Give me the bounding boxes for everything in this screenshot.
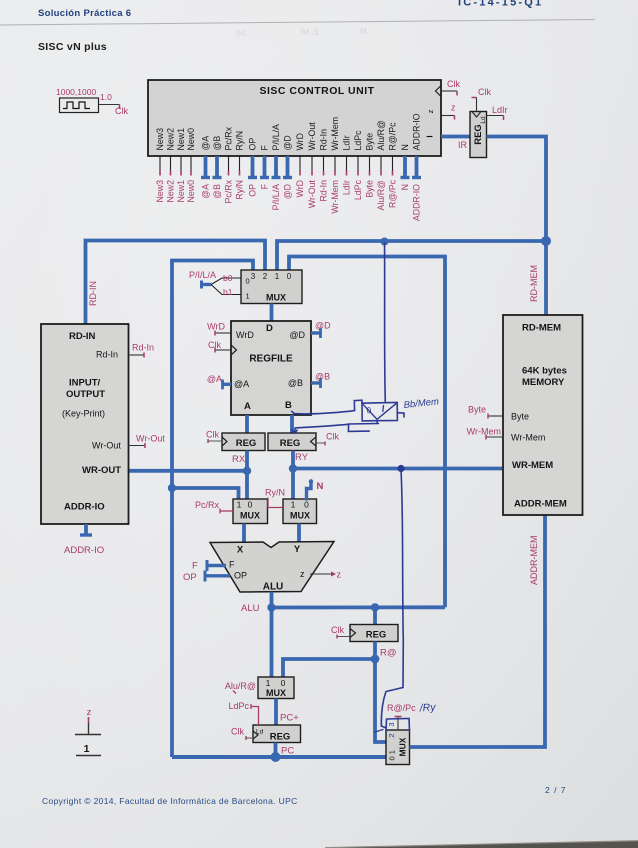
svg-text:New2: New2 <box>166 128 176 151</box>
pen wire Bb/Mem mux output back to RY <box>348 421 378 432</box>
wire PC bus left vertical loop <box>172 261 253 758</box>
IR clock input Clk <box>472 87 492 112</box>
svg-text:New1: New1 <box>176 180 186 203</box>
control unit pin OP <box>248 138 258 197</box>
wire RD-MEM top bus from right vertical to MUX input 1 <box>277 241 546 270</box>
pen wire from RD-MEM bus down to Bb/Mem mux input 1 <box>384 243 387 403</box>
svg-text:F: F <box>260 183 270 189</box>
svg-text:N: N <box>400 144 410 150</box>
I/O pin Rd-In <box>129 343 155 358</box>
svg-text:Alu/R@: Alu/R@ <box>225 681 256 691</box>
svg-text:Rd-In: Rd-In <box>132 343 154 353</box>
memory U4 64K bytes MEMORY <box>503 315 583 515</box>
junction RY / WR-MEM <box>289 464 297 472</box>
wire RD-MEM bus vertical above memory <box>544 241 548 315</box>
svg-text:b1: b1 <box>223 287 233 297</box>
svg-text:Wr-Out: Wr-Out <box>136 434 165 444</box>
svg-text:Pc/Rx: Pc/Rx <box>195 500 220 510</box>
wire REGFILE B to REG RY <box>290 415 294 433</box>
control unit pin Ry/N <box>235 131 245 200</box>
memory pin Byte <box>468 405 503 419</box>
svg-text:1: 1 <box>291 500 296 510</box>
svg-text:0: 0 <box>246 277 250 286</box>
svg-text:ADDR-IO: ADDR-IO <box>64 502 105 513</box>
svg-text:WrD: WrD <box>295 180 305 197</box>
svg-text:REG: REG <box>270 732 291 743</box>
svg-text:PC+: PC+ <box>280 713 299 724</box>
svg-text:0: 0 <box>281 678 286 688</box>
constant 1 driver for z <box>75 707 101 756</box>
svg-text:ADDR-IO: ADDR-IO <box>412 113 422 150</box>
svg-text:Byte: Byte <box>511 412 529 422</box>
svg-text:OP: OP <box>183 572 197 583</box>
svg-text:z: z <box>451 103 456 113</box>
svg-text:Wr-Out: Wr-Out <box>307 179 317 208</box>
pen junction on WR-MEM bus <box>397 465 404 472</box>
svg-text:ALU: ALU <box>241 603 260 614</box>
junction R@ output <box>371 655 380 664</box>
svg-text:Clk: Clk <box>447 79 460 89</box>
control unit pin @A <box>201 136 211 199</box>
ALU output z flag <box>310 570 342 580</box>
svg-text:R@/Pc: R@/Pc <box>388 179 398 208</box>
svg-text:Clk: Clk <box>115 106 128 116</box>
REGFILE pin WrD <box>207 322 231 336</box>
svg-text:ADDR-MEM: ADDR-MEM <box>514 499 567 510</box>
wire PC bus <box>172 755 386 759</box>
mux M3 (Ry/N MUX) <box>283 499 317 524</box>
control unit pin Byte <box>365 133 375 198</box>
svg-text:MUX: MUX <box>290 511 310 521</box>
wire WR-MEM bus from RY to memory <box>293 467 503 471</box>
svg-text:2: 2 <box>263 272 268 281</box>
control unit pin Wr-Mem <box>330 117 340 214</box>
svg-text:IM..S: IM..S <box>300 28 319 37</box>
wire MUX output to REGFILE D <box>270 304 274 322</box>
header rule <box>0 20 595 26</box>
clock generator <box>56 87 128 116</box>
svg-text:Wr-Out: Wr-Out <box>307 122 317 151</box>
control unit pin Pc/Rx <box>224 126 234 203</box>
svg-text:1000,1000: 1000,1000 <box>56 87 96 97</box>
svg-text:MEMORY: MEMORY <box>522 377 565 388</box>
svg-text:WrD: WrD <box>236 330 254 340</box>
svg-text:OUTPUT: OUTPUT <box>66 389 105 400</box>
pen junction on RD-MEM bus <box>381 238 389 246</box>
control unit pin R@/Pc <box>388 122 398 208</box>
svg-text:Clk: Clk <box>331 625 344 635</box>
svg-text:Copyright © 2014, Facultad de: Copyright © 2014, Facultad de Informátic… <box>42 796 298 806</box>
svg-text:X: X <box>237 545 244 556</box>
wire MUX2 out to ALU Y <box>297 524 301 544</box>
svg-text:PC: PC <box>281 746 294 757</box>
mux M1 (P/I/L/A 4-input MUX) <box>241 270 302 321</box>
wire PC output <box>274 743 278 758</box>
svg-text:Clk: Clk <box>206 430 219 440</box>
svg-text:INPUT/: INPUT/ <box>69 378 101 389</box>
svg-text:Ry/N: Ry/N <box>235 131 245 151</box>
RY clock Clk <box>316 432 339 446</box>
svg-text:0: 0 <box>287 272 292 281</box>
pen squiggle near mux input <box>375 730 383 733</box>
svg-text:z: z <box>337 570 342 580</box>
svg-text:LdIr: LdIr <box>342 180 352 195</box>
wire RD-IN bus from I/O up and right to MUX input 2 <box>86 241 266 325</box>
REGFILE pin @B stub <box>311 372 330 389</box>
svg-text:WrD: WrD <box>295 133 305 150</box>
register PC (REG) <box>253 725 301 743</box>
svg-text:REG: REG <box>280 438 301 449</box>
control unit pin Alu/R@ <box>376 120 386 210</box>
svg-text:Ry/N: Ry/N <box>235 180 245 200</box>
svg-text:64K bytes: 64K bytes <box>522 366 567 377</box>
svg-text:2: 2 <box>387 733 396 737</box>
control unit pin WrD <box>295 133 305 197</box>
svg-text:F: F <box>192 561 198 572</box>
I/O ADDR-IO stub <box>64 524 104 556</box>
faint bleed-through marks <box>236 27 369 38</box>
svg-text:N: N <box>317 481 324 492</box>
svg-text:WR-OUT: WR-OUT <box>82 465 121 476</box>
I/O pin Wr-Out <box>129 434 166 449</box>
register RX (REG) <box>222 433 265 451</box>
wire R@ branch to Alu/R@ mux in0 <box>283 659 375 677</box>
svg-text:IR: IR <box>458 140 468 150</box>
svg-text:RD-IN: RD-IN <box>88 281 98 306</box>
svg-text:1.0: 1.0 <box>100 92 112 102</box>
junction ALU output <box>267 603 275 611</box>
control unit pin New3 <box>155 128 165 203</box>
svg-text:LdIr: LdIr <box>342 135 352 150</box>
svg-text:@B: @B <box>212 184 222 199</box>
photo bottom edge shadow <box>325 841 638 848</box>
svg-text:New0: New0 <box>186 180 196 203</box>
svg-text:P/I/L/A: P/I/L/A <box>189 270 216 280</box>
svg-text:WrD: WrD <box>207 322 225 332</box>
svg-text:R@/Pc: R@/Pc <box>388 122 398 151</box>
svg-text:@B: @B <box>315 372 330 382</box>
I/O unit U5 INPUT/OUTPUT <box>41 324 129 524</box>
node N stub input <box>307 479 324 499</box>
control unit pin LdPc <box>353 130 363 200</box>
control unit clock input Clk <box>436 79 461 97</box>
pen hook into mux input 3 <box>381 726 386 728</box>
wire R@ output down to bottom mux <box>375 642 386 743</box>
wire RX output to MUX in0 <box>245 451 249 500</box>
svg-text:@A: @A <box>207 374 222 384</box>
ALU input stub F <box>192 560 226 572</box>
svg-text:@B: @B <box>288 378 303 388</box>
svg-text:0: 0 <box>248 500 253 510</box>
select Ry/N <box>265 488 285 508</box>
svg-text:LdPc: LdPc <box>353 130 363 151</box>
PC load input LdPc <box>228 701 258 725</box>
pen extension box on address mux <box>386 719 410 732</box>
wire PC branch to MUX1 in1 <box>172 488 239 499</box>
svg-text:Rd-In: Rd-In <box>96 350 118 360</box>
svg-text:Rd-In: Rd-In <box>319 129 329 151</box>
REGFILE pin Clk <box>208 340 231 353</box>
REGFILE pin @A stub <box>207 374 231 389</box>
control unit input z <box>426 103 456 120</box>
svg-text:REG: REG <box>236 438 257 449</box>
hand-drawn mux Bb/Mem <box>362 402 397 421</box>
register R@ (REG) <box>350 625 398 642</box>
select R@/Pc <box>387 703 416 730</box>
svg-text:LdPc: LdPc <box>353 179 363 200</box>
svg-text:New0: New0 <box>186 128 196 151</box>
wire RY output to MUX in1 <box>291 451 295 500</box>
svg-text:MUX: MUX <box>266 688 286 698</box>
wire WR-OUT bus from I/O to RX <box>129 469 248 473</box>
svg-text:z: z <box>87 707 92 718</box>
control unit pin LdIr <box>342 135 352 195</box>
svg-text:@D: @D <box>315 321 331 331</box>
junction PC branch <box>168 484 176 492</box>
wire RD-MEM bus from IR corner down right side <box>487 137 547 242</box>
svg-text:Wr-Out: Wr-Out <box>92 441 121 451</box>
svg-text:IM,: IM, <box>236 29 247 38</box>
svg-text:LdIr: LdIr <box>492 105 508 115</box>
svg-text:REGFILE: REGFILE <box>249 354 293 365</box>
ALU input stub OP <box>183 571 230 584</box>
PC clock Clk <box>231 727 253 741</box>
svg-text:@A: @A <box>201 184 211 199</box>
select Pc/Rx <box>195 500 233 514</box>
svg-text:REG: REG <box>473 124 484 145</box>
svg-text:RD-MEM: RD-MEM <box>529 265 539 302</box>
svg-text:MUX: MUX <box>398 737 408 756</box>
svg-text:@B: @B <box>212 136 222 151</box>
memory pin Wr-Mem <box>467 427 503 440</box>
control unit pin Wr-Out <box>307 122 317 208</box>
R@ clock Clk <box>331 625 350 639</box>
svg-text:MUX: MUX <box>240 511 260 521</box>
control unit pin Rd-In <box>319 129 329 202</box>
node P/I/L/A select stub <box>189 270 241 297</box>
svg-text:MUX: MUX <box>266 293 286 303</box>
svg-text:Byte: Byte <box>365 180 375 198</box>
svg-text:I: I <box>426 135 435 137</box>
svg-text:1: 1 <box>237 500 242 510</box>
svg-text:3: 3 <box>251 272 256 281</box>
svg-text:SISC vN plus: SISC vN plus <box>38 41 107 53</box>
svg-text:Rd-In: Rd-In <box>319 180 329 202</box>
svg-text:Solución Práctica 6: Solución Práctica 6 <box>38 8 131 19</box>
pen wire from WR-MEM bus down to address mux <box>381 470 403 726</box>
register file U2 REGFILE <box>231 321 311 415</box>
control unit pin New1 <box>176 128 186 203</box>
svg-text:Ld: Ld <box>480 116 487 124</box>
svg-text:ADDR-IO: ADDR-IO <box>64 545 104 556</box>
svg-text:(Key-Print): (Key-Print) <box>62 409 105 419</box>
control unit U1 SISC CONTROL UNIT <box>148 80 441 156</box>
svg-text:1: 1 <box>275 272 280 281</box>
svg-text:RX: RX <box>232 454 246 465</box>
control unit pin @B <box>212 136 222 199</box>
svg-text:R@: R@ <box>380 648 397 659</box>
wire REGFILE A to REG RX <box>245 415 249 433</box>
pen select hook of Bb/Mem mux <box>397 413 404 417</box>
svg-text:0 1: 0 1 <box>388 750 397 760</box>
svg-text:F: F <box>229 560 235 570</box>
svg-text:1: 1 <box>266 678 271 688</box>
wire ADDR-MEM from M5 output to memory <box>410 515 546 747</box>
svg-text:B: B <box>285 400 292 411</box>
pen wire B into Bb/Mem mux input 0 <box>292 400 362 414</box>
svg-text:N: N <box>400 184 410 190</box>
wire bus I from IR to control unit <box>441 135 470 139</box>
wire ALU output <box>270 592 274 677</box>
svg-text:F: F <box>260 145 270 151</box>
svg-text:D: D <box>266 323 273 334</box>
svg-text:REG: REG <box>366 630 387 641</box>
mux M5 (R@/Pc address MUX, vertical) <box>386 730 410 765</box>
svg-text:Clk: Clk <box>326 432 339 442</box>
svg-text:WR-MEM: WR-MEM <box>512 460 553 471</box>
mux M2 (Pc/Rx MUX) <box>233 499 268 524</box>
control unit pin N <box>400 144 410 190</box>
svg-text:ALU: ALU <box>263 582 284 593</box>
svg-text:Wr-Mem: Wr-Mem <box>330 117 340 151</box>
wire select fork b0 <box>211 278 241 285</box>
svg-text:OP: OP <box>248 138 258 151</box>
IR load input LdIr <box>487 105 508 120</box>
svg-text:@D: @D <box>283 135 293 150</box>
svg-text:Byte: Byte <box>468 405 486 415</box>
svg-text:RD-MEM: RD-MEM <box>522 323 561 334</box>
svg-text:@A: @A <box>234 379 249 389</box>
svg-text:0: 0 <box>304 500 309 510</box>
svg-text:@A: @A <box>201 136 211 151</box>
svg-text:Byte: Byte <box>365 133 375 151</box>
svg-text:Clk: Clk <box>478 87 491 97</box>
mux M4 (Alu/R@ MUX) <box>258 677 294 699</box>
svg-text:Wr-Mem: Wr-Mem <box>511 433 545 443</box>
RX clock Clk <box>206 430 222 444</box>
wire into R@ register <box>373 607 377 624</box>
junction R@ reg input <box>371 603 379 611</box>
svg-text:LdPc: LdPc <box>228 701 249 711</box>
ALU U3 <box>210 542 334 593</box>
register RY (REG) <box>268 433 316 451</box>
svg-text:@D: @D <box>289 330 305 340</box>
control unit pin ADDR-IO <box>412 113 422 221</box>
svg-text:Pc/Rx: Pc/Rx <box>224 126 234 150</box>
control unit pin New2 <box>166 128 176 203</box>
pen mux input number 1 <box>382 406 385 412</box>
svg-text:A: A <box>244 401 251 412</box>
svg-text:Alu/R@: Alu/R@ <box>376 180 386 211</box>
select Alu/R@ <box>225 681 256 694</box>
svg-text:z: z <box>300 569 305 579</box>
svg-text:b0: b0 <box>223 273 233 283</box>
svg-text:P/I/L/A: P/I/L/A <box>271 184 281 211</box>
control unit pin F <box>260 145 270 190</box>
junction RD-MEM corner <box>541 236 551 246</box>
svg-text:New3: New3 <box>155 180 165 203</box>
svg-text:OP: OP <box>248 184 258 197</box>
svg-text:Y: Y <box>294 544 301 555</box>
control unit pin P/I/L/A <box>271 124 281 210</box>
svg-text:OP: OP <box>234 571 247 581</box>
wire MUX1 out to ALU X <box>242 524 246 544</box>
svg-text:ADDR-MEM: ADDR-MEM <box>529 536 539 586</box>
svg-text:Pc/Rx: Pc/Rx <box>224 179 234 203</box>
wire select fork b1 <box>211 285 241 295</box>
svg-text:/Ry: /Ry <box>418 701 436 714</box>
svg-text:RY: RY <box>295 452 309 463</box>
register IR (REG) <box>470 112 487 158</box>
junction RX / WR-OUT <box>243 467 251 475</box>
svg-text:Clk: Clk <box>231 727 244 737</box>
junction PC <box>271 752 281 762</box>
control unit pin @D <box>283 135 293 199</box>
svg-text:M.: M. <box>360 27 369 36</box>
svg-text:New2: New2 <box>166 180 176 203</box>
svg-text:New1: New1 <box>176 128 186 151</box>
control unit pin New0 <box>186 128 196 203</box>
svg-text:Ry/N: Ry/N <box>265 488 285 498</box>
svg-text:IC-14-15-Q1: IC-14-15-Q1 <box>458 0 543 9</box>
svg-text:R@/Pc: R@/Pc <box>387 703 416 713</box>
svg-text:RD-IN: RD-IN <box>69 331 96 342</box>
svg-text:Wr-Mem: Wr-Mem <box>467 427 501 437</box>
svg-text:1: 1 <box>84 743 90 755</box>
svg-text:3: 3 <box>387 722 396 726</box>
wire ALU result bus <box>272 605 446 609</box>
svg-text:P/I/L/A: P/I/L/A <box>271 124 281 151</box>
svg-text:z: z <box>426 109 435 113</box>
REGFILE clock wedge <box>231 345 237 355</box>
svg-text:Alu/R@: Alu/R@ <box>376 120 386 151</box>
svg-text:@D: @D <box>283 184 293 199</box>
svg-text:Wr-Mem: Wr-Mem <box>330 180 340 214</box>
svg-text:New3: New3 <box>155 128 165 151</box>
wire ALU feedback to MUX input 0 <box>289 257 445 608</box>
wire M4 output PC+ <box>274 699 278 726</box>
svg-text:SISC CONTROL UNIT: SISC CONTROL UNIT <box>259 85 374 97</box>
svg-text:2 / 7: 2 / 7 <box>545 785 567 795</box>
svg-text:ADDR-IO: ADDR-IO <box>412 184 422 221</box>
svg-text:1: 1 <box>246 292 250 301</box>
REGFILE pin @D stub <box>311 321 331 339</box>
